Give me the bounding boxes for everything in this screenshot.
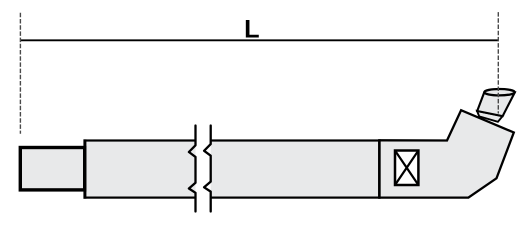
head polygon (bent end) — [379, 110, 513, 197]
electrode collar — [477, 111, 503, 122]
shank block (left end) — [20, 148, 84, 190]
extension line left (dashed) — [19, 13, 21, 134]
junction line tube/head — [378, 139, 381, 198]
extension/centre line right (dashed, over cap) — [497, 12, 499, 113]
break gap (white) — [196, 139, 211, 200]
crossed box (clamping section) — [395, 151, 418, 186]
break line right (zigzag) — [204, 126, 211, 212]
shank/tube joint edge — [83, 139, 86, 198]
arm tube (cylinder) — [85, 141, 380, 198]
electrode cap (frustum) — [477, 92, 515, 116]
electrode cap top ellipse — [484, 89, 514, 95]
dimension line L — [20, 39, 498, 41]
svg-text:L: L — [244, 16, 259, 44]
break line left (zigzag) — [189, 126, 196, 212]
crossed box X diagonals — [395, 151, 418, 186]
